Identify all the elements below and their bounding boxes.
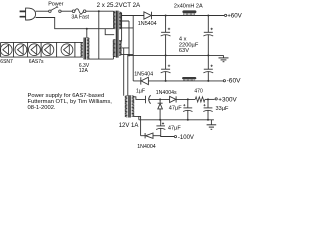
filter cap C4 2200uF — [203, 55, 213, 81]
tube heater 6AS7 V2 — [15, 44, 27, 56]
transformer T2 primary winding — [87, 38, 89, 59]
wire D4 to R1 — [176, 98, 195, 100]
filter choke L1 2x40mH — [182, 10, 196, 15]
tube heater 6SN7 V1 — [0, 44, 12, 56]
svg-text:1N4004: 1N4004 — [137, 144, 156, 150]
wire T3 secondary bottom to D5 — [133, 116, 141, 135]
wire T3 secondary top to C5 — [133, 97, 145, 100]
wire fuse to transformer primary top — [86, 10, 114, 12]
wire R1 to terminal — [205, 98, 215, 100]
svg-text:-60V: -60V — [227, 78, 242, 85]
ground 0V — [219, 55, 229, 61]
filter choke L2 2x40mH (negative rail) — [182, 77, 196, 81]
rectifier diode D5 1N4004 — [141, 133, 161, 138]
output cap C8 47uF — [156, 120, 174, 137]
svg-text:-100V: -100V — [178, 135, 194, 141]
rectifier diode D2 1N5404 — [141, 77, 149, 84]
svg-text:2 x 25.2VCT 2A: 2 x 25.2VCT 2A — [97, 2, 141, 9]
wire plug to switch — [36, 10, 49, 12]
transformer T3 12V primary winding — [125, 96, 127, 117]
0V mid rail — [129, 54, 224, 56]
svg-text:1N4004s: 1N4004s — [156, 90, 177, 96]
rectifier diode D1 1N5404 — [144, 12, 152, 19]
svg-text:47µF: 47µF — [168, 126, 181, 132]
ground — [207, 120, 217, 130]
wire C5 to D4 — [149, 98, 170, 100]
svg-text:33µF: 33µF — [216, 106, 229, 112]
secondary top stub vertical — [121, 13, 123, 41]
dc positive rail — [122, 15, 225, 17]
transformer T3 secondary winding — [132, 96, 134, 117]
svg-text:+300V: +300V — [218, 96, 237, 103]
wire primary 2 jog — [105, 29, 114, 35]
wire AC tie vertical — [98, 11, 100, 59]
svg-text:63V: 63V — [179, 48, 189, 54]
ground rail — [139, 119, 214, 121]
heater bus rails and rungs — [1, 42, 83, 57]
svg-text:1µF: 1µF — [136, 88, 145, 94]
transformer T1 core — [116, 11, 118, 58]
secondary bottom vertical to negative rectifier — [132, 16, 134, 81]
smoothing cap C6 47uF — [183, 99, 192, 119]
junction dots dc section — [128, 15, 209, 121]
svg-text:2x40mH 2A: 2x40mH 2A — [174, 3, 203, 9]
tube heater 6AS7 V4 — [42, 44, 54, 56]
junction dots AC — [86, 10, 100, 30]
terminal +60V — [225, 14, 227, 16]
wire filament transformer feed — [86, 29, 88, 38]
transformer T3 core — [129, 95, 130, 117]
power switch S1 — [49, 6, 61, 12]
filter cap C3 2200uF — [161, 55, 171, 81]
secondary CT vertical to 0V rail and T3 feed — [124, 21, 129, 96]
svg-text:12A: 12A — [79, 68, 89, 74]
svg-text:470: 470 — [194, 89, 203, 95]
fuse F1 3A — [72, 9, 86, 14]
wire switch to fuse — [61, 10, 72, 12]
transformer T2 6.3V secondary winding — [81, 42, 83, 57]
transformer T2 core — [84, 38, 85, 60]
svg-text:12V 1A: 12V 1A — [119, 123, 139, 129]
mains plug P1 — [20, 8, 36, 20]
svg-text:47µF: 47µF — [169, 106, 182, 112]
svg-text:6AS7s: 6AS7s — [29, 59, 44, 65]
terminal -60V — [223, 80, 225, 82]
filter cap C1 2200uF — [161, 16, 171, 56]
tube heater 6AS7 V3 — [29, 44, 41, 56]
secondary stubs — [120, 13, 133, 55]
transformer T1 secondary windings — [119, 12, 121, 55]
filter cap C2 2200uF — [203, 16, 213, 56]
terminal -100V — [174, 136, 176, 138]
svg-text:3A Fast: 3A Fast — [71, 14, 89, 20]
resistor R1 470 — [195, 97, 205, 102]
smoothing cap C7 33uF — [203, 99, 212, 119]
tube heater 6SN7 V5 — [61, 44, 73, 56]
wire plug bottom AC line — [36, 18, 114, 29]
terminal +300V — [215, 98, 217, 100]
svg-text:+60V: +60V — [227, 12, 242, 19]
dc negative rail — [133, 80, 224, 82]
coupling cap C5 1uF — [146, 95, 151, 104]
svg-text:6SN7: 6SN7 — [0, 59, 13, 65]
svg-text:08-1-2002.: 08-1-2002. — [28, 105, 56, 111]
svg-text:1N5404: 1N5404 — [134, 72, 153, 78]
svg-text:1N5404: 1N5404 — [138, 21, 157, 27]
svg-text:Power: Power — [48, 2, 63, 8]
series diode D4 1N4004 — [170, 96, 177, 102]
transformer T1 primary windings — [113, 11, 115, 56]
clamp diode D3 1N4004 — [158, 99, 163, 119]
wire primary bottom tie — [87, 56, 116, 59]
